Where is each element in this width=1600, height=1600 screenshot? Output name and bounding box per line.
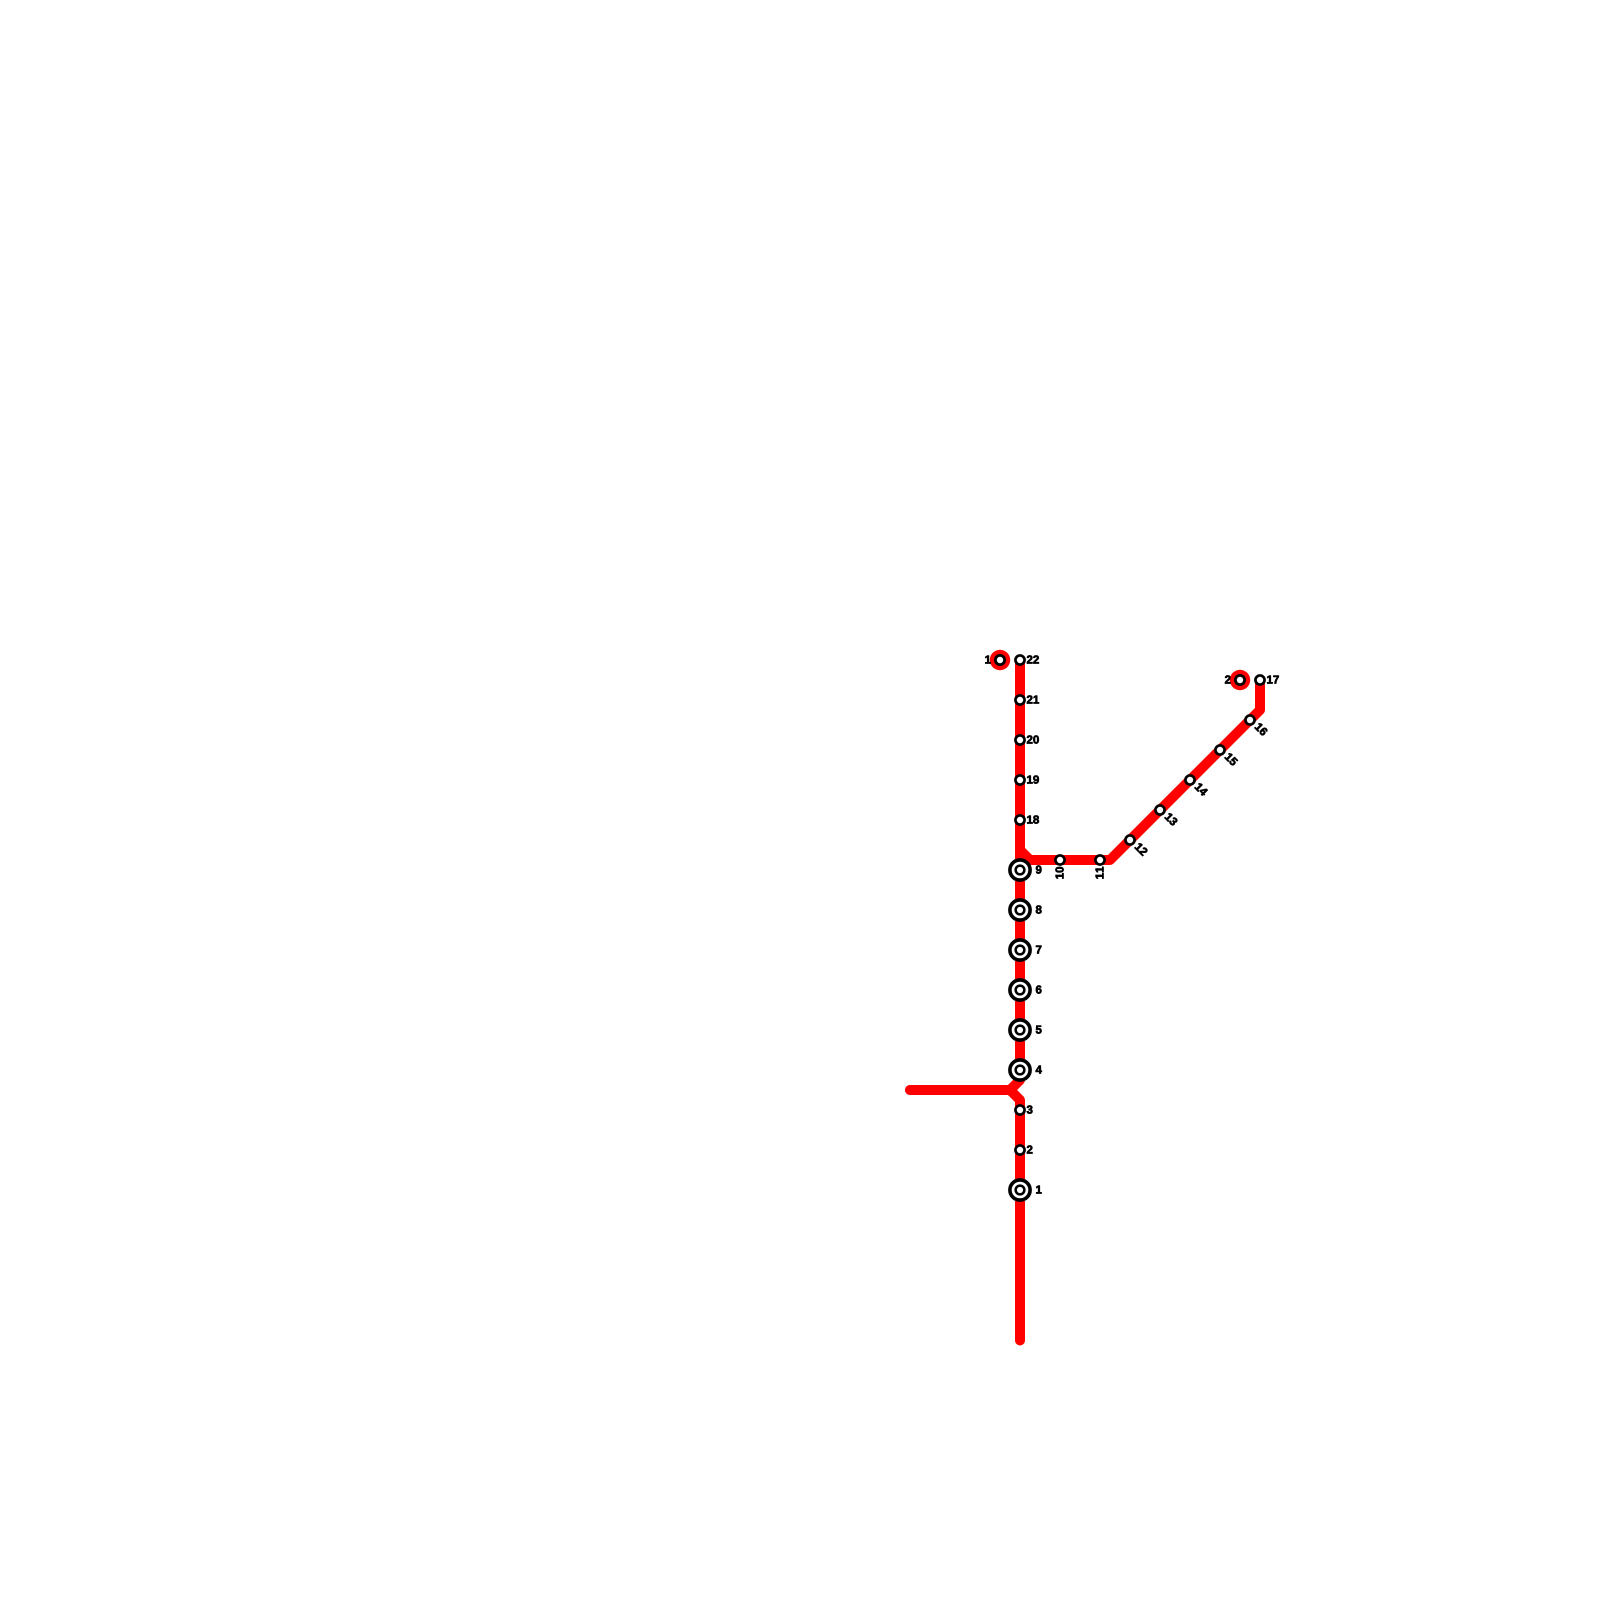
station 2 — [1015, 1145, 1032, 1154]
legend terminus marker 1 (red ring) — [990, 650, 1010, 670]
station 8 interchange — [1010, 900, 1042, 920]
station 3 — [1015, 1105, 1032, 1114]
label 1 for legend marker 1 — [985, 656, 990, 664]
station 9 interchange — [1010, 860, 1042, 880]
station 7 interchange — [1010, 940, 1041, 960]
wire main line upper: station 22 south to jog, then west branch to left terminus — [910, 660, 1020, 1090]
station 1 interchange — [1010, 1180, 1042, 1200]
station 14 — [1185, 775, 1208, 796]
wire main line lower: west terminus east, jog southeast, south through stations 3-1 to tail — [910, 1090, 1020, 1341]
station 19 — [1015, 775, 1038, 784]
legend terminus marker 2 (red ring) — [1230, 670, 1250, 690]
station 15 — [1215, 745, 1238, 766]
station 18 — [1015, 815, 1038, 824]
station 6 interchange — [1010, 980, 1042, 1000]
station 21 — [1015, 695, 1039, 704]
station 10 — [1055, 855, 1064, 878]
station 20 — [1015, 735, 1038, 744]
station 17 — [1255, 675, 1278, 684]
wire branch line: bevel off main line at (1020,850), east along y=860, 45deg northeast, north to station 17 — [1020, 680, 1260, 860]
station 16 — [1245, 715, 1268, 736]
label 2 for legend marker 2 — [1225, 675, 1231, 683]
station 4 interchange — [1010, 1060, 1042, 1080]
station 13 — [1155, 805, 1178, 826]
station 5 interchange — [1010, 1020, 1042, 1040]
station 12 — [1125, 835, 1148, 856]
station 22 — [1015, 655, 1038, 664]
station 11 — [1095, 855, 1104, 878]
